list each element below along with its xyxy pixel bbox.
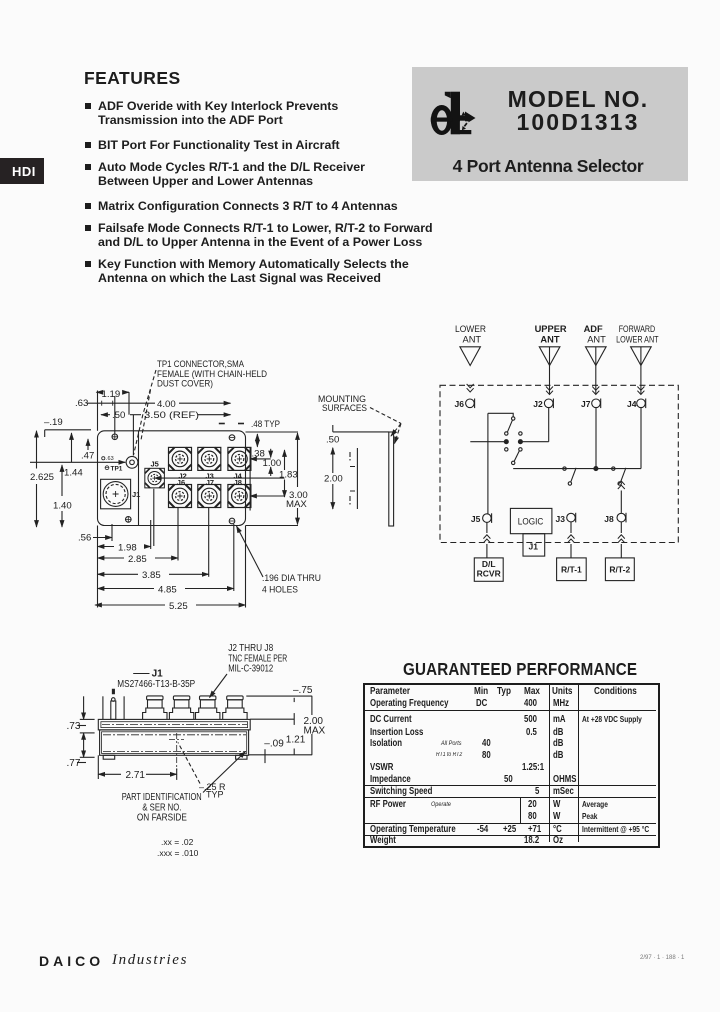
svg-text:ANT: ANT bbox=[463, 334, 482, 344]
svg-text:2.00: 2.00 bbox=[324, 474, 343, 485]
svg-text:.73: .73 bbox=[67, 721, 81, 732]
svg-text:2.85: 2.85 bbox=[128, 554, 147, 565]
svg-text:.196 DIA THRU: .196 DIA THRU bbox=[262, 573, 321, 584]
svg-text:1.98: 1.98 bbox=[118, 543, 137, 554]
svg-text:DUST COVER): DUST COVER) bbox=[157, 379, 213, 389]
svg-text:UPPER: UPPER bbox=[535, 324, 567, 334]
svg-text:TYP: TYP bbox=[206, 790, 224, 800]
svg-text:J7: J7 bbox=[581, 399, 591, 409]
svg-text:1.19: 1.19 bbox=[102, 389, 121, 400]
svg-text:PART IDENTIFICATION: PART IDENTIFICATION bbox=[122, 792, 202, 803]
svg-text:R/T-1: R/T-1 bbox=[561, 565, 582, 575]
svg-text:ANT: ANT bbox=[540, 334, 559, 344]
svg-text:.47: .47 bbox=[81, 451, 94, 462]
svg-text:.63: .63 bbox=[75, 398, 88, 409]
svg-text:J1: J1 bbox=[132, 490, 140, 499]
svg-text:1.83: 1.83 bbox=[279, 470, 298, 481]
svg-text:TP1 CONNECTOR,SMA: TP1 CONNECTOR,SMA bbox=[157, 359, 244, 369]
svg-text:MS27466-T13-B-35P: MS27466-T13-B-35P bbox=[117, 679, 195, 690]
svg-text:–.75: –.75 bbox=[293, 685, 313, 696]
svg-text:J4: J4 bbox=[627, 399, 637, 409]
svg-text:.48 TYP: .48 TYP bbox=[251, 419, 280, 430]
svg-text:D/L: D/L bbox=[482, 559, 496, 569]
svg-text:LOWER: LOWER bbox=[455, 324, 486, 334]
svg-text:2.71: 2.71 bbox=[126, 770, 146, 781]
svg-text:4.00: 4.00 bbox=[157, 399, 176, 410]
svg-text:3.85: 3.85 bbox=[142, 570, 161, 581]
svg-text:1.21: 1.21 bbox=[286, 735, 306, 746]
svg-text:5.25: 5.25 bbox=[169, 601, 188, 612]
svg-text:J8: J8 bbox=[234, 478, 242, 487]
svg-text:ON FARSIDE: ON FARSIDE bbox=[137, 813, 187, 824]
svg-text:.50: .50 bbox=[326, 435, 339, 446]
svg-text:MAX: MAX bbox=[286, 499, 307, 510]
svg-text:R/T-2: R/T-2 bbox=[609, 565, 630, 575]
svg-text:3.50 (REF): 3.50 (REF) bbox=[144, 410, 199, 421]
svg-text:.50: .50 bbox=[112, 410, 125, 421]
svg-text:J8: J8 bbox=[604, 514, 614, 524]
svg-text:J3: J3 bbox=[556, 514, 566, 524]
svg-text:J6: J6 bbox=[455, 399, 465, 409]
svg-text:TP1: TP1 bbox=[111, 466, 123, 473]
svg-text:2.625: 2.625 bbox=[30, 472, 54, 483]
svg-text:J6: J6 bbox=[177, 478, 185, 487]
svg-text:.77: .77 bbox=[67, 758, 81, 769]
svg-text:.xxx = .010: .xxx = .010 bbox=[157, 848, 199, 858]
svg-text:RCVR: RCVR bbox=[477, 569, 501, 579]
svg-text:SURFACES: SURFACES bbox=[322, 403, 367, 414]
svg-text:.xx = .02: .xx = .02 bbox=[161, 837, 194, 847]
svg-text:ANT: ANT bbox=[587, 334, 606, 344]
svg-text:.56: .56 bbox=[78, 533, 91, 544]
svg-text:J2 THRU J8: J2 THRU J8 bbox=[228, 643, 273, 654]
svg-text:1.40: 1.40 bbox=[53, 501, 72, 512]
svg-text:MAX: MAX bbox=[304, 726, 326, 737]
svg-text:1.00: 1.00 bbox=[263, 458, 282, 469]
svg-text:J1: J1 bbox=[152, 669, 164, 680]
svg-text:4 HOLES: 4 HOLES bbox=[262, 585, 298, 596]
svg-text:–.09: –.09 bbox=[264, 739, 284, 750]
svg-text:J7: J7 bbox=[206, 478, 214, 487]
svg-text:J1: J1 bbox=[529, 542, 539, 552]
svg-text:MIL-C-39012: MIL-C-39012 bbox=[228, 664, 273, 675]
svg-text:FEMALE (WITH CHAIN-HELD: FEMALE (WITH CHAIN-HELD bbox=[157, 369, 267, 379]
svg-text:FORWARD: FORWARD bbox=[619, 324, 656, 334]
svg-text:4.85: 4.85 bbox=[158, 585, 177, 596]
svg-text:.63: .63 bbox=[106, 456, 114, 462]
svg-text:J2: J2 bbox=[533, 399, 543, 409]
svg-text:–.19: –.19 bbox=[44, 417, 63, 428]
svg-text:1.44: 1.44 bbox=[64, 468, 83, 479]
svg-text:LOGIC: LOGIC bbox=[518, 517, 544, 527]
svg-text:J5: J5 bbox=[471, 514, 481, 524]
svg-text:J5: J5 bbox=[151, 460, 159, 469]
svg-text:ADF: ADF bbox=[584, 324, 603, 334]
svg-text:LOWER ANT: LOWER ANT bbox=[616, 334, 659, 344]
